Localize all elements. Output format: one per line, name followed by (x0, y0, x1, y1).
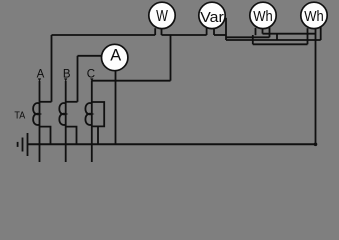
wattmeter W circle (149, 2, 175, 28)
varmeter circle (199, 2, 225, 28)
svg-text:A: A (37, 69, 45, 81)
wire riser CT-B secondary to ammeter (77, 56, 79, 102)
watthour meter Wh1 left lead (255, 28, 257, 35)
watthour meter Wh2 side lead (320, 26, 322, 40)
transformer TA-C secondary loop (92, 102, 104, 126)
wire H2 V1 to Wh2 side lead (226, 39, 321, 41)
watthour meter Wh2 left lead (307, 28, 309, 44)
transformer TA-C drop to common bus (97, 126, 99, 144)
transformer TA-C winding (85, 103, 91, 125)
arrow phase C (90, 78, 93, 81)
svg-text:W: W (156, 8, 168, 25)
wire phase B line (65, 81, 67, 162)
wire vertical drop x252.8 from bus1 (252, 35, 254, 44)
wattmeter W right lead (161, 28, 163, 35)
transformer TA-B winding (59, 103, 65, 125)
wire riser x170.5 to bus1 (170, 35, 172, 81)
varmeter right lead (213, 28, 215, 35)
svg-text:A: A (110, 47, 121, 65)
ground bar short (17, 142, 19, 147)
svg-text:C: C (87, 69, 95, 81)
arrow phase A (38, 78, 41, 81)
transformer TA-B top hook (66, 101, 78, 103)
ground bar middle (22, 138, 24, 152)
wire phase A line (39, 81, 41, 162)
watthour meter Wh2 return lead down to common bus (315, 28, 317, 144)
wire H-E to Wh2 left lead (253, 43, 308, 45)
wire bus1 segment CT-A to W (52, 34, 156, 36)
wire bus1 segment Var to V1 (214, 34, 226, 36)
wire vertical jumper x277 (276, 34, 278, 40)
ammeter bottom lead to common bus (115, 71, 117, 145)
transformer TA-A winding (33, 103, 39, 125)
varmeter left lead (206, 28, 208, 35)
transformer TA-B bottom hook (66, 127, 77, 145)
watthour meter Wh1 circle (250, 2, 276, 28)
varmeter side lead V1 (225, 18, 227, 40)
wire bus1 segment W to Var (162, 34, 207, 36)
wire phase C line (91, 81, 93, 162)
wire H3 V1 to Wh1 right lead (226, 36, 270, 38)
transformer TA-A bottom hook (40, 127, 51, 145)
svg-text:TA: TA (14, 109, 25, 121)
wire riser CT-A secondary to bus1 (51, 35, 53, 102)
wire common bottom bus (28, 143, 317, 145)
watthour meter Wh1 middle lead (262, 28, 264, 34)
watthour meter Wh1 right lead (269, 27, 271, 37)
wire Wh1 middle to Wh2 down lead (263, 33, 316, 35)
transformer TA-A top hook (40, 101, 52, 103)
svg-text:Wh: Wh (253, 9, 273, 25)
ammeter circle (102, 44, 128, 70)
junction dot at common bus right end (314, 143, 318, 147)
wire phase C tap horizontal (92, 80, 171, 82)
watthour meter Wh2 circle (301, 2, 327, 28)
svg-text:Wh: Wh (304, 9, 324, 25)
arrow phase B (64, 78, 67, 81)
wire bus2 to ammeter left terminal (78, 55, 102, 57)
svg-text:Var: Var (200, 9, 224, 26)
wattmeter W left lead (154, 28, 156, 35)
ground bar long (27, 133, 29, 156)
svg-text:B: B (63, 69, 71, 81)
